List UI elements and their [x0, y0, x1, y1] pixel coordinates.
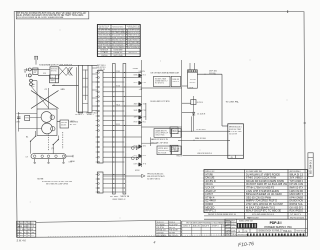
crossing wires to blower — [31, 91, 59, 109]
svg-text:ACA C81: ACA C81 — [193, 224, 200, 227]
svg-text:RV180: RV180 — [102, 55, 108, 57]
svg-text:HL 7A5NI L: HL 7A5NI L — [157, 223, 166, 226]
svg-text:4TC1: 4TC1 — [134, 155, 138, 157]
terminal strip TB3 — [31, 154, 66, 159]
capacitor C3 — [18, 112, 20, 132]
resistor R3 box — [172, 146, 181, 155]
resistor R2 box — [172, 129, 181, 138]
svg-text:704-0-1: 704-0-1 — [283, 230, 292, 233]
svg-text:1P WG KICU: 1P WG KICU — [196, 129, 206, 131]
svg-text:65L6 6: 65L6 6 — [61, 125, 66, 127]
svg-text:F1: F1 — [44, 73, 46, 75]
terminal E1 — [170, 127, 178, 133]
svg-text:BS-704-0-1: BS-704-0-1 — [309, 160, 313, 174]
svg-text:HA95 I2P E3C5 7E: HA95 I2P E3C5 7E — [151, 138, 169, 141]
svg-text:I2IK AL 0O: I2IK AL 0O — [157, 229, 167, 232]
revision strip top line — [36, 221, 156, 223]
svg-text:(T): (T) — [52, 148, 55, 150]
svg-text:1D9L1 S: 1D9L1 S — [183, 225, 191, 227]
wire 115VAC BLK — [178, 130, 228, 132]
svg-text:POWER SUPPLY 704: POWER SUPPLY 704 — [264, 225, 292, 229]
fuse selection table — [97, 25, 140, 57]
svg-text:3WTR: 3WTR — [86, 113, 92, 115]
wire P2 leads — [32, 80, 37, 82]
relay K1 — [188, 72, 198, 88]
svg-text:RPVFC 3: RPVFC 3 — [206, 209, 217, 213]
svg-text:C2: C2 — [45, 89, 47, 91]
remote power rail — [103, 175, 142, 177]
svg-text:AS CD3 45: AS CD3 45 — [169, 234, 178, 237]
svg-text:G2US X: G2US X — [189, 82, 196, 84]
fuse table notes rows — [97, 50, 140, 52]
svg-text:J1: J1 — [231, 157, 233, 159]
top border tick mark — [287, 10, 289, 13]
buck-boost bar 2 — [123, 64, 126, 195]
svg-text:41 6U6 R: 41 6U6 R — [197, 114, 206, 116]
cluster B feed — [145, 103, 147, 120]
wire top rail — [59, 64, 97, 66]
plug P2 contact lower — [30, 83, 33, 86]
fuse F1 — [50, 75, 59, 83]
svg-text:S1: S1 — [26, 136, 28, 138]
twisted pair wires — [59, 67, 66, 75]
svg-text:5964T H05: 5964T H05 — [155, 135, 164, 137]
parts list row — [204, 218, 308, 220]
wire stub to D11 — [182, 112, 192, 114]
svg-text:HC05 EXA4 G: HC05 EXA4 G — [129, 46, 140, 49]
diode D11 — [192, 112, 195, 115]
wire blower to switch — [57, 121, 60, 123]
svg-text:NU DXTH: NU DXTH — [229, 133, 238, 135]
svg-text:I86AF SO 5HU: I86AF SO 5HU — [195, 137, 207, 140]
thermal switch box — [60, 120, 69, 128]
svg-text:DUV0G K8P 01 TP BTB: DUV0G K8P 01 TP BTB — [150, 101, 170, 103]
TB3 drop leads — [34, 159, 36, 163]
svg-text:22K9: 22K9 — [116, 71, 120, 73]
svg-text:NGG50 47DGD: NGG50 47DGD — [112, 26, 124, 28]
general notes box — [16, 12, 89, 19]
svg-text:60: 60 — [24, 72, 26, 74]
wire +15V GRN — [183, 154, 228, 156]
revision table — [17, 221, 36, 237]
svg-text:NOTE:: NOTE: — [38, 178, 45, 180]
svg-text:4XDXE: 4XDXE — [190, 79, 196, 81]
svg-text:08G66 EVCH XG RML 57: 08G66 EVCH XG RML 57 — [259, 230, 284, 233]
svg-text:XG6: XG6 — [116, 85, 120, 87]
switch S2 — [53, 144, 54, 145]
terminal board TB1 — [97, 71, 103, 164]
scan artifacts — [30, 30, 288, 219]
wire CB1 to filter upper — [31, 69, 50, 71]
svg-text:GRN: GRN — [61, 89, 66, 91]
wire AC line drop — [221, 74, 223, 126]
dimension tolerance table — [182, 221, 231, 236]
diode bank — [139, 74, 142, 77]
reference designation row — [204, 215, 308, 217]
digital logo — [237, 223, 257, 228]
svg-text:7F B: 7F B — [143, 164, 146, 166]
svg-text:HO 6P4X7 4: HO 6P4X7 4 — [155, 83, 164, 85]
svg-text:IW 67 IMI5 HK LLWP UFSN: IW 67 IMI5 HK LLWP UFSN — [46, 183, 69, 185]
svg-text:F5F5: F5F5 — [26, 117, 29, 119]
TB2 rails — [103, 174, 124, 176]
wire fuse bottom rail — [52, 85, 79, 87]
svg-text:K0B8G 4FHK VX7: K0B8G 4FHK VX7 — [239, 221, 253, 223]
svg-text:MN 8TU N: MN 8TU N — [129, 52, 138, 54]
svg-text:UVWF7 1: UVWF7 1 — [222, 225, 229, 227]
svg-text:N5HP TKE: N5HP TKE — [64, 65, 73, 67]
pilot lamp I2 — [131, 157, 134, 160]
vertical feeds — [36, 81, 38, 109]
svg-text:6O: 6O — [24, 229, 26, 231]
svg-text:NRKA4: NRKA4 — [70, 160, 75, 163]
svg-text:TVT KEL5T V: TVT KEL5T V — [290, 214, 302, 216]
revision strip dotted shadow — [48, 235, 240, 237]
wire relay to bus — [182, 85, 188, 87]
svg-text:8DALF 5XGCP 8TC TC WBO 3E: 8DALF 5XGCP 8TC TC WBO 3E — [246, 209, 281, 213]
title block left column — [236, 219, 238, 236]
contact dashes — [42, 64, 52, 66]
svg-text:W9CER: W9CER — [135, 170, 140, 172]
blower feed wires — [19, 113, 38, 115]
terminal board TB2 — [97, 172, 103, 193]
svg-text:4: 4 — [154, 241, 156, 245]
wire -15 rail — [142, 126, 182, 128]
svg-text:K6 16: K6 16 — [78, 113, 83, 115]
blower housing — [37, 109, 57, 136]
svg-text:M991: M991 — [16, 122, 20, 124]
parts list table — [204, 170, 308, 213]
svg-text:PDP-8 I: PDP-8 I — [270, 221, 282, 225]
transformer T1 secondary winding — [88, 65, 92, 113]
T1 bottom wire — [77, 111, 88, 113]
plug P1 contact lower — [28, 74, 31, 77]
svg-text:7A 4: 7A 4 — [116, 103, 120, 106]
svg-text:9U 0: 9U 0 — [143, 75, 147, 77]
remote connector lug — [142, 174, 146, 177]
svg-text:4MNI: 4MNI — [134, 104, 138, 106]
svg-text:G1IDX 4: G1IDX 4 — [172, 81, 179, 83]
zener diode D10 — [193, 96, 195, 131]
tap rails short — [103, 81, 124, 83]
right border tick — [304, 122, 306, 124]
svg-text:XH7E: XH7E — [134, 110, 138, 112]
svg-text:FMCR 6: FMCR 6 — [177, 155, 183, 157]
svg-text:14K4: 14K4 — [143, 146, 146, 148]
resistor R1 box — [171, 76, 180, 86]
fuse table rows — [97, 30, 140, 32]
plug P2 contact upper — [30, 79, 33, 82]
svg-text:C1IF: C1IF — [143, 82, 146, 84]
svg-text:KMC4P R: KMC4P R — [202, 225, 210, 227]
first-used-on block — [156, 221, 181, 237]
svg-text:K680X 7WNR2 4C: K680X 7WNR2 4C — [113, 199, 127, 201]
svg-text:1GP8: 1GP8 — [143, 117, 146, 119]
microfilm ruler strip — [247, 234, 304, 237]
rectifier bus — [141, 60, 143, 167]
svg-text:WU: WU — [28, 232, 30, 234]
twisted pair loop — [70, 67, 73, 75]
svg-text:61TG FM5 4GBF0 W2 U4 F: 61TG FM5 4GBF0 W2 U4 F — [252, 214, 275, 216]
svg-text:WI24 M8EB: WI24 M8EB — [157, 235, 167, 237]
svg-text:TLS8: TLS8 — [143, 104, 146, 106]
wire LO GND RED — [178, 139, 228, 141]
tap rails long — [103, 72, 142, 74]
plug P1 contact upper — [28, 68, 31, 71]
svg-text:R72XB WM9: R72XB WM9 — [114, 49, 123, 51]
line filter FL1 — [50, 67, 59, 79]
svg-text:PEX3W T6 P025M FUREF K2K2 1G: PEX3W T6 P025M FUREF K2K2 1G — [208, 214, 236, 216]
switch linkage — [48, 135, 50, 151]
svg-text:86 TD0E: 86 TD0E — [158, 152, 167, 154]
svg-text:MT875 W: MT875 W — [101, 49, 109, 51]
wire stub to D10 — [182, 102, 191, 104]
svg-text:TO CONT. PNL.: TO CONT. PNL. — [226, 102, 240, 104]
capacitor C4 box — [25, 116, 30, 121]
svg-text:GM WN7H 9W2: GM WN7H 9W2 — [238, 234, 248, 236]
wire +10 rail — [142, 87, 182, 89]
size code cells — [237, 228, 308, 230]
switch linkage right — [62, 132, 64, 149]
terminal E2 — [170, 145, 178, 151]
svg-text:60 5S7V 28G 2: 60 5S7V 28G 2 — [147, 178, 161, 180]
buck-boost bar 1 — [113, 64, 116, 195]
title block — [225, 219, 308, 236]
drawing number tab — [308, 153, 313, 177]
circuit breaker CB1 — [33, 68, 38, 75]
svg-text:IE 112: IE 112 — [70, 124, 77, 126]
svg-text:PE XE T9O 8: PE XE T9O 8 — [99, 26, 110, 28]
svg-text:K1L W9 H1 RDRF 9E I8L 5ONV 166: K1L W9 H1 RDRF 9E I8L 5ONV 166HR EXB PAE — [17, 16, 64, 19]
svg-text:BM 2H: BM 2H — [94, 113, 99, 115]
svg-text:O8 IP A: O8 IP A — [157, 226, 165, 229]
svg-text:NIET4 TA: NIET4 TA — [121, 195, 130, 198]
svg-text:VHD 47E 9B KU5 0: VHD 47E 9B KU5 0 — [197, 153, 212, 155]
breaker contacts — [34, 56, 36, 60]
T1 core lines — [85, 70, 87, 101]
T1 tap stubs — [83, 69, 89, 71]
transformer T1 primary winding — [79, 65, 83, 113]
svg-text:S.W. 4-6: S.W. 4-6 — [17, 240, 27, 243]
connector pins — [228, 130, 231, 132]
cluster interconnect — [150, 137, 152, 146]
svg-text:VR71: VR71 — [70, 121, 75, 123]
output bus right — [181, 60, 183, 155]
capacitor C1 box — [154, 76, 170, 86]
wire AC line out — [197, 73, 222, 75]
svg-text:M53 N6 2A: M53 N6 2A — [297, 229, 307, 232]
capacitor C8 box — [157, 146, 171, 155]
blower motor B2 — [42, 123, 53, 134]
relay feed wires — [189, 63, 191, 70]
switch drop wires — [30, 141, 32, 154]
switch S1 — [30, 141, 31, 142]
svg-text:IOE OPX ATK SMH IA RWBM DI4H: IOE OPX ATK SMH IA RWBM DI4H — [150, 72, 179, 75]
blower motor B1 — [41, 112, 52, 123]
svg-text:R2X IF0DG: R2X IF0DG — [290, 209, 304, 213]
svg-text:D31R2: D31R2 — [171, 149, 176, 151]
svg-text:X07TV PHN: X07TV PHN — [114, 55, 124, 57]
capacitor C7 box — [154, 129, 171, 138]
svg-text:P31: P31 — [143, 110, 147, 112]
wire CB1 to filter lower — [38, 74, 50, 76]
svg-text:1H MP 3: 1H MP 3 — [212, 225, 219, 227]
svg-text:*: * — [85, 12, 86, 16]
svg-text:SD8 G: SD8 G — [171, 131, 177, 133]
relay K1 contact dots — [188, 70, 198, 72]
svg-text:GCXI K: GCXI K — [197, 102, 204, 104]
svg-text:R896B UP: R896B UP — [114, 52, 124, 54]
svg-text:XTTA FR: XTTA FR — [101, 51, 109, 54]
power cable connector J1 — [228, 124, 244, 159]
svg-text:RH P26: RH P26 — [51, 71, 57, 73]
pilot lamp I1 — [131, 147, 134, 150]
wire plug to breaker — [35, 60, 37, 65]
wire bar to right — [66, 155, 73, 157]
connector bottom cells — [228, 154, 244, 156]
svg-text:XGRNN I5MT7 E: XGRNN I5MT7 E — [127, 26, 140, 28]
